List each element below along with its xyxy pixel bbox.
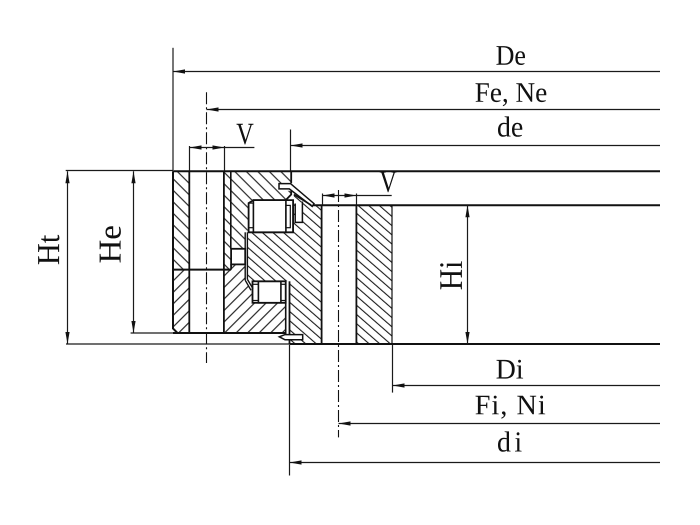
gap channel walls <box>244 232 246 249</box>
dimension label V2 <box>380 172 397 193</box>
dimension label Ht <box>38 235 59 264</box>
lower pocket right strip lines <box>281 283 286 285</box>
outer ring bore edge above seal groove <box>290 171 292 183</box>
dimension label V1 <box>237 124 254 145</box>
upper seal strip <box>279 184 314 207</box>
seal groove in outer ring bore (white) <box>279 183 291 191</box>
dimension Ht top extension line <box>66 170 173 172</box>
dimension V right line <box>323 195 392 197</box>
inner bolt hole right wall <box>355 205 357 344</box>
inner ring top surface <box>311 204 660 206</box>
dimension Hi arrows <box>465 205 469 217</box>
dimension Fi,Ni arrow <box>339 421 351 425</box>
inner ring block right edge <box>391 205 393 344</box>
radial roller <box>231 249 245 265</box>
outer ring bottom edge <box>173 332 286 334</box>
dimension label Di <box>497 360 524 379</box>
bottom seal bar <box>279 335 302 340</box>
dimension di extension line <box>289 345 291 476</box>
inner bolt hole center line <box>338 190 340 437</box>
dimension Di line <box>393 385 661 387</box>
dimension V left arrows <box>190 145 202 149</box>
inner ring bottom surface <box>290 343 661 345</box>
dimension Ht bottom extension line <box>66 343 290 345</box>
dimension label De <box>496 46 525 65</box>
outer ring left edge <box>173 171 178 333</box>
lower roller pocket outline <box>253 281 286 303</box>
outer ring bore edge below seal groove <box>286 191 292 200</box>
dimension V right extension lines <box>322 194 324 205</box>
upper pocket right strip <box>286 205 290 227</box>
outer ring inner boundary line <box>230 171 232 249</box>
outer ring lower half (hatched section) <box>173 264 286 333</box>
outer ring split line <box>173 269 231 271</box>
dimension De extension line <box>172 48 174 170</box>
dimension di line <box>290 462 661 464</box>
lower pocket left strip lines <box>253 283 259 285</box>
dimension Hi line <box>467 205 469 344</box>
upper roller <box>253 200 286 232</box>
dimension de line <box>291 145 661 147</box>
inner ring shoulder diagonal <box>294 195 312 206</box>
outer bolt hole left wall <box>188 171 190 333</box>
outer ring top surface <box>173 170 660 172</box>
dimension Fe,Ne line <box>207 109 661 111</box>
dimension Ht line <box>67 171 69 344</box>
dimension Di arrow <box>393 383 405 387</box>
dimension de arrow <box>291 143 303 147</box>
dimension De line <box>173 71 660 73</box>
dimension Ht arrows <box>65 171 69 183</box>
inner ring (hatched section, tongue + body + bolt block) <box>247 195 392 345</box>
dimension label de <box>498 116 522 136</box>
dimension He line <box>133 171 135 333</box>
upper roller pocket (white) <box>249 200 294 232</box>
top labyrinth gap (white) <box>286 172 294 204</box>
dimension V left line <box>189 147 254 149</box>
outer bolt hole center line <box>206 92 208 363</box>
dimension label FiNi <box>476 396 546 419</box>
inner bolt hole left wall <box>321 205 323 344</box>
lower roller <box>258 281 281 303</box>
dimension He arrows <box>131 171 135 183</box>
dimension He bottom extension line <box>131 332 173 334</box>
dimension De arrow <box>173 69 185 73</box>
upper roller pocket outline <box>249 200 294 232</box>
dimension V right arrows <box>323 193 335 197</box>
dimension Fi,Ni line <box>339 423 661 425</box>
dimension label FeNe <box>476 83 547 106</box>
dimension V left extension lines <box>189 146 191 171</box>
gap channel beside radial roller (white) <box>245 232 253 290</box>
dimension Di extension line <box>392 345 394 393</box>
dimension Fe,Ne arrow <box>207 107 219 111</box>
radial roller pocket (white) <box>231 249 245 265</box>
seal wall line left of notch <box>292 205 294 233</box>
seal notch in inner ring (white) <box>295 203 302 223</box>
lower roller pocket (white) <box>253 281 286 303</box>
upper pocket left strip lines <box>249 202 254 204</box>
outer bolt hole (white) <box>189 171 224 333</box>
dimension di arrow <box>290 460 302 464</box>
dimension label Hi <box>440 261 462 289</box>
bottom labyrinth gap (white) <box>286 281 290 335</box>
bottom gap walls <box>285 303 287 335</box>
outer ring upper half (hatched section) <box>173 171 291 269</box>
seal notch outline <box>295 202 302 223</box>
inner bolt hole (white) <box>322 205 357 344</box>
dimension label di <box>498 431 522 451</box>
outer bolt hole right wall <box>223 171 225 333</box>
dimension de extension line <box>290 130 292 171</box>
dimension label He <box>100 226 121 262</box>
radial roller step <box>230 264 232 269</box>
